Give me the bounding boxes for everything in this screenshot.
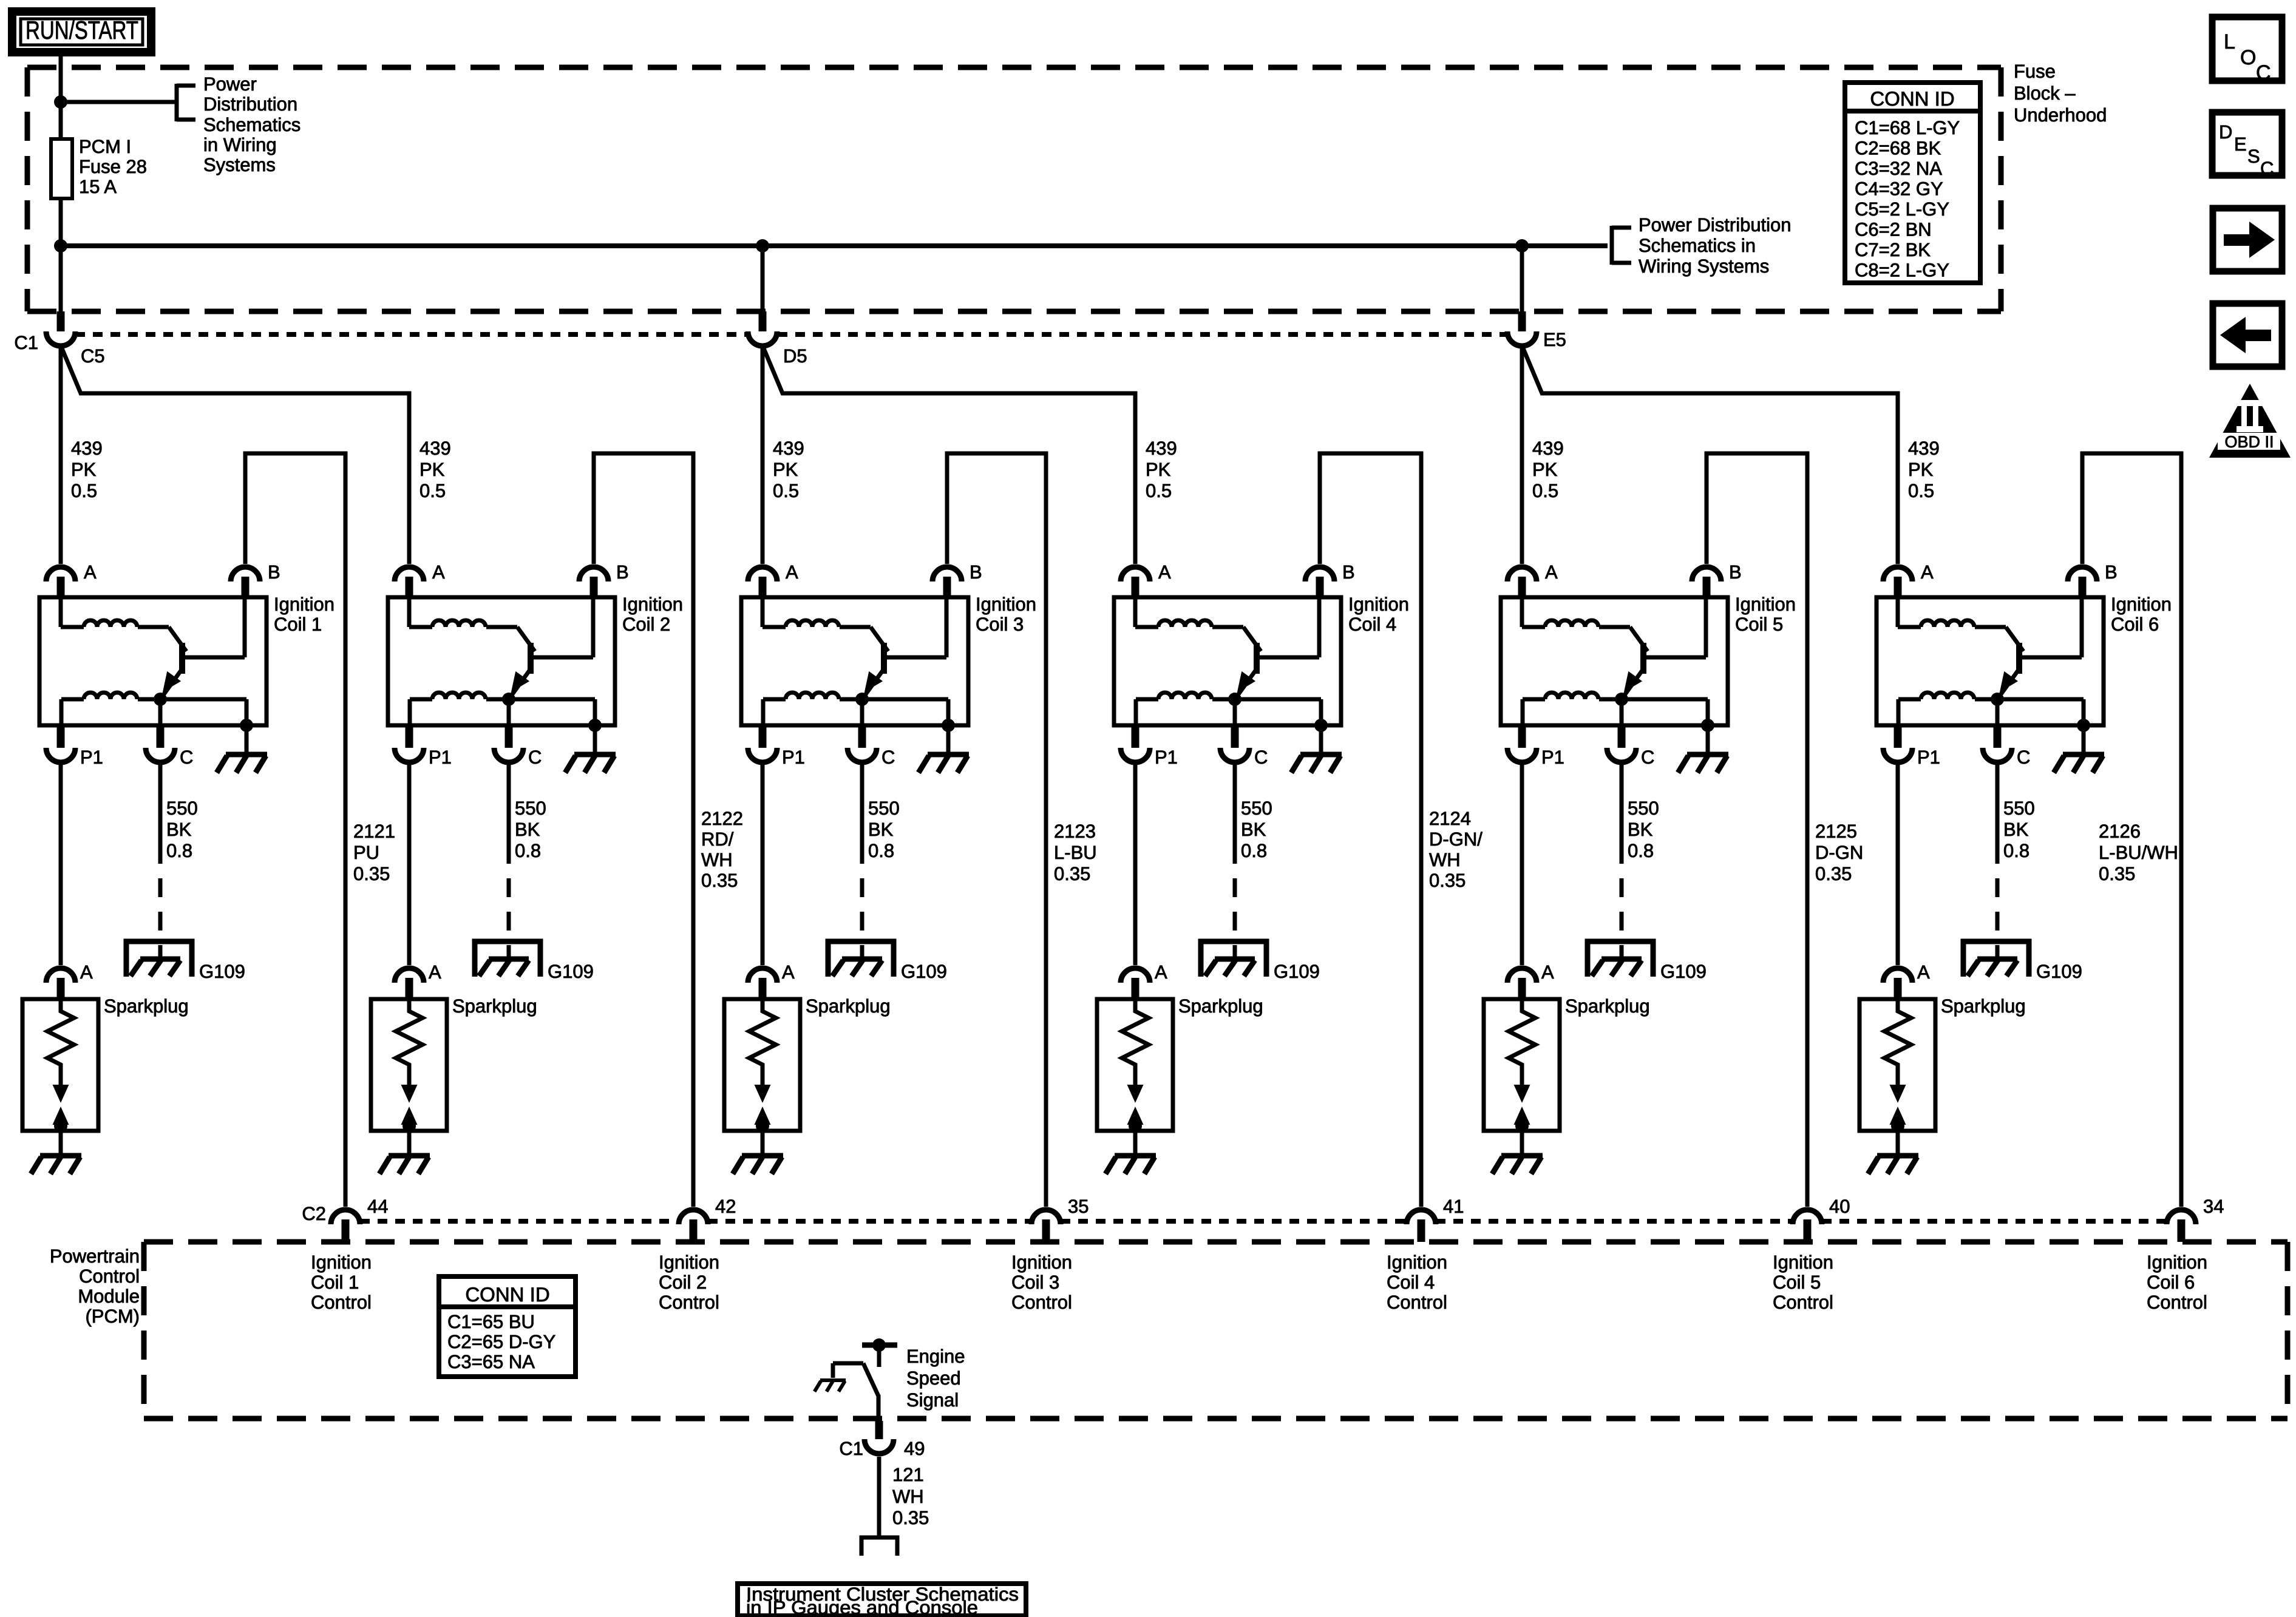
label: Ignition Coil 5 Control — [1773, 1252, 1833, 1313]
svg-text:Coil 3: Coil 3 — [976, 614, 1024, 635]
svg-text:C: C — [1254, 747, 1268, 768]
wire: 550 BK from coil 3 pin C — [860, 765, 864, 864]
label: Ignition Coil 1 — [274, 594, 335, 635]
svg-text:B: B — [1342, 561, 1355, 583]
svg-text:P1: P1 — [1541, 747, 1564, 768]
svg-text:A: A — [786, 561, 798, 583]
svg-text:G109: G109 — [1660, 961, 1707, 982]
label: circuit 2125 — [1815, 821, 1863, 884]
connector: PCM pin 34 — [2167, 1210, 2196, 1242]
label: Powertrain Control Module (PCM) — [50, 1246, 140, 1327]
wire: 550 BK from coil 5 pin C — [1620, 765, 1624, 864]
svg-text:C6=2 BN: C6=2 BN — [1855, 219, 1932, 240]
sparkplug 5 — [1484, 961, 1560, 1133]
svg-text:P1: P1 — [1155, 747, 1178, 768]
node: bus junction at E5 — [1515, 239, 1529, 253]
svg-text:439: 439 — [1146, 438, 1177, 459]
svg-text:2126: 2126 — [2099, 821, 2141, 842]
sparkplug 4 — [1097, 961, 1173, 1133]
svg-text:C: C — [180, 747, 193, 768]
svg-text:Sparkplug: Sparkplug — [1178, 995, 1263, 1017]
svg-text:0.35: 0.35 — [701, 870, 738, 891]
icon: back arrow box — [2213, 303, 2282, 367]
svg-text:Control: Control — [1773, 1292, 1833, 1313]
svg-text:C: C — [2256, 61, 2271, 84]
svg-text:44: 44 — [367, 1196, 388, 1217]
wire: dotted connector interface line (top) — [75, 332, 748, 337]
svg-text:0.35: 0.35 — [1054, 863, 1090, 884]
svg-text:Coil 4: Coil 4 — [1387, 1272, 1435, 1293]
wire: 439 PK feed to coil 3 — [761, 348, 765, 564]
svg-text:BK: BK — [868, 819, 894, 840]
svg-text:D5: D5 — [783, 345, 807, 367]
node: bus junction at C5 — [54, 239, 67, 253]
svg-text:C: C — [528, 747, 542, 768]
svg-text:0.8: 0.8 — [1241, 840, 1267, 861]
svg-text:Control: Control — [659, 1292, 719, 1313]
label: 550 BK 0.8 (coil 2) — [515, 798, 546, 861]
svg-text:BK: BK — [2003, 819, 2029, 840]
label: 550 BK 0.8 (coil 1) — [166, 798, 198, 861]
svg-text:A: A — [1541, 961, 1554, 983]
svg-text:Wiring Systems: Wiring Systems — [1639, 256, 1769, 277]
svg-text:B: B — [268, 561, 280, 583]
svg-text:L-BU/WH: L-BU/WH — [2099, 842, 2178, 863]
bracket: power distribution schematics reference (right) — [1612, 226, 1631, 265]
svg-text:Ignition: Ignition — [622, 594, 683, 615]
fuse PCM I Fuse 28 15 A — [51, 139, 72, 198]
svg-text:Coil 1: Coil 1 — [274, 614, 322, 635]
svg-text:B: B — [2105, 561, 2118, 583]
svg-text:Module: Module — [78, 1286, 140, 1307]
label: Ignition Coil 4 Control — [1387, 1252, 1447, 1313]
svg-text:41: 41 — [1443, 1196, 1464, 1217]
ground (sparkplug 5) — [1492, 1131, 1543, 1174]
wire: ignition coil 2 control to PCM — [594, 453, 693, 1207]
svg-text:550: 550 — [166, 798, 198, 819]
wire: 439 PK feed to coil 5 — [1520, 348, 1524, 564]
svg-text:S: S — [2247, 146, 2260, 167]
svg-text:Control: Control — [1387, 1292, 1447, 1313]
svg-text:G109: G109 — [1274, 961, 1320, 982]
sparkplug 2 — [371, 961, 447, 1133]
svg-text:0.8: 0.8 — [868, 840, 894, 861]
svg-text:C: C — [2017, 747, 2030, 768]
label: Ignition Coil 3 Control — [1011, 1252, 1072, 1313]
svg-text:C1=68 L-GY: C1=68 L-GY — [1855, 117, 1960, 138]
svg-text:Schematics in: Schematics in — [1639, 235, 1756, 256]
wire: dashed splice to G109 (coil 2) — [507, 878, 511, 959]
fuse block CONN ID table — [1845, 83, 1980, 283]
wire: coil 4 P1 to sparkplug — [1133, 765, 1138, 965]
svg-text:Block –: Block – — [2014, 83, 2076, 104]
ground (sparkplug 3) — [733, 1131, 783, 1174]
label: PCM I Fuse 28 15 A — [79, 136, 147, 197]
svg-text:in Wiring: in Wiring — [203, 134, 277, 155]
svg-text:Fuse 28: Fuse 28 — [79, 156, 147, 177]
svg-text:0.35: 0.35 — [353, 863, 390, 884]
label: Ignition Coil 1 Control — [311, 1252, 372, 1313]
svg-text:Control: Control — [2147, 1292, 2207, 1313]
svg-text:40: 40 — [1829, 1196, 1850, 1217]
svg-text:Distribution: Distribution — [203, 93, 297, 115]
wire: coil 5 P1 to sparkplug — [1520, 765, 1524, 965]
svg-text:Ignition: Ignition — [1735, 594, 1796, 615]
wire: dotted connector interface line (PCM) — [360, 1219, 679, 1224]
svg-text:Coil 1: Coil 1 — [311, 1272, 359, 1293]
svg-text:C: C — [881, 747, 895, 768]
svg-text:E5: E5 — [1543, 329, 1566, 350]
svg-text:Powertrain: Powertrain — [50, 1246, 140, 1267]
label: 550 BK 0.8 (coil 4) — [1241, 798, 1272, 861]
label: 439 PK 0.5 (coil 6) — [1908, 438, 1940, 501]
wire: 550 BK from coil 2 pin C — [507, 765, 511, 864]
svg-text:0.35: 0.35 — [892, 1507, 929, 1528]
wire from fuse to bus — [59, 198, 63, 246]
Fuse Block - Underhood label — [2014, 61, 2107, 126]
svg-text:2124: 2124 — [1429, 808, 1471, 829]
svg-text:L-BU: L-BU — [1054, 842, 1097, 863]
ground (coil 5 case) — [1678, 725, 1728, 773]
svg-text:PU: PU — [353, 842, 379, 863]
svg-text:BK: BK — [1241, 819, 1266, 840]
svg-text:C1: C1 — [14, 332, 38, 353]
svg-text:Fuse: Fuse — [2014, 61, 2056, 82]
svg-text:2125: 2125 — [1815, 821, 1857, 842]
svg-text:D-GN: D-GN — [1815, 842, 1863, 863]
svg-text:15 A: 15 A — [79, 176, 117, 197]
svg-text:C2=68 BK: C2=68 BK — [1855, 138, 1941, 159]
connector: PCM pin 40 — [1793, 1210, 1822, 1242]
connector C1 pin 49 — [864, 1421, 894, 1454]
svg-text:0.8: 0.8 — [1628, 840, 1654, 861]
wire: coil 2 P1 to sparkplug — [407, 765, 412, 965]
wire to power distribution bracket — [61, 100, 177, 104]
wire: 439 PK feed to coil 6 — [1523, 348, 1898, 564]
ground G109 (coil 5) — [1588, 941, 1653, 977]
ignition coil 6 — [1877, 561, 2118, 768]
svg-text:BK: BK — [515, 819, 540, 840]
label: Ignition Coil 6 — [2111, 594, 2172, 635]
svg-text:Coil 2: Coil 2 — [622, 614, 670, 635]
svg-text:0.35: 0.35 — [1429, 870, 1466, 891]
svg-text:C: C — [1641, 747, 1654, 768]
svg-text:Schematics: Schematics — [203, 114, 301, 135]
svg-text:C3=32 NA: C3=32 NA — [1855, 158, 1942, 179]
svg-text:439: 439 — [1532, 438, 1564, 459]
svg-text:Coil 4: Coil 4 — [1348, 614, 1396, 635]
svg-text:0.8: 0.8 — [166, 840, 192, 861]
svg-text:A: A — [1917, 961, 1930, 983]
wire: ignition coil 4 control to PCM — [1320, 453, 1421, 1207]
ground G109 (coil 2) — [475, 941, 540, 977]
svg-text:PK: PK — [419, 459, 445, 480]
icon: forward arrow box — [2213, 208, 2282, 271]
sparkplug 1 — [22, 961, 98, 1133]
svg-text:C5=2 L-GY: C5=2 L-GY — [1855, 198, 1949, 220]
wire: coil 1 P1 to sparkplug — [59, 765, 63, 965]
svg-text:D: D — [2219, 121, 2232, 143]
svg-text:E: E — [2234, 134, 2247, 155]
svg-text:Ignition: Ignition — [2111, 594, 2172, 615]
ignition coil 1 — [39, 561, 280, 768]
svg-text:C8=2 L-GY: C8=2 L-GY — [1855, 260, 1949, 281]
svg-text:PK: PK — [1532, 459, 1558, 480]
connector: PCM pin 42 — [679, 1210, 708, 1242]
svg-text:B: B — [616, 561, 629, 583]
ignition coil 4 — [1114, 561, 1355, 768]
svg-text:Sparkplug: Sparkplug — [1941, 995, 2026, 1017]
bracket: power distribution schematics reference — [177, 84, 195, 121]
off-page connector to instrument cluster — [861, 1537, 897, 1556]
Fuse Block - Underhood dashed box — [27, 67, 2001, 311]
connector: PCM pin 35 — [1031, 1210, 1061, 1242]
ground G109 (coil 1) — [126, 941, 192, 977]
svg-text:Control: Control — [1011, 1292, 1072, 1313]
svg-text:Engine: Engine — [906, 1346, 965, 1367]
ground (coil 1 case) — [217, 725, 267, 773]
svg-text:C4=32 GY: C4=32 GY — [1855, 178, 1943, 200]
svg-text:A: A — [80, 961, 93, 983]
svg-text:O: O — [2240, 46, 2256, 69]
svg-text:Coil 5: Coil 5 — [1773, 1272, 1821, 1293]
svg-text:121: 121 — [892, 1464, 924, 1485]
svg-text:G109: G109 — [901, 961, 947, 982]
svg-text:439: 439 — [419, 438, 451, 459]
svg-text:0.5: 0.5 — [1146, 480, 1172, 501]
label: 550 BK 0.8 (coil 3) — [868, 798, 900, 861]
node: junction to power distribution note — [54, 95, 67, 109]
ground (coil 6 case) — [2054, 725, 2104, 773]
svg-text:RD/: RD/ — [701, 829, 734, 850]
PCM CONN ID table — [439, 1276, 576, 1377]
ignition coil 5 — [1501, 561, 1742, 768]
ground G109 (coil 6) — [1963, 941, 2029, 977]
svg-text:439: 439 — [71, 438, 103, 459]
label: 439 PK 0.5 (coil 1) — [71, 438, 103, 501]
svg-text:0.8: 0.8 — [515, 840, 541, 861]
wire: 439 PK feed to coil 2 — [62, 348, 409, 564]
svg-text:34: 34 — [2203, 1196, 2224, 1217]
svg-text:PK: PK — [1146, 459, 1171, 480]
svg-text:A: A — [1155, 961, 1167, 983]
svg-text:Ignition: Ignition — [1011, 1252, 1072, 1273]
svg-text:A: A — [84, 561, 97, 583]
ground (sparkplug 2) — [379, 1131, 430, 1174]
svg-text:Ignition: Ignition — [311, 1252, 372, 1273]
ground (coil 3 case) — [919, 725, 969, 773]
label: circuit 2124 — [1429, 808, 1483, 891]
wire from RUN/START to fuse — [59, 52, 63, 139]
ground G109 (coil 4) — [1201, 941, 1266, 977]
label: circuit 2123 — [1054, 821, 1097, 884]
svg-text:Ignition: Ignition — [976, 594, 1036, 615]
svg-text:0.35: 0.35 — [2099, 863, 2135, 884]
svg-text:0.8: 0.8 — [2003, 840, 2029, 861]
svg-text:C5: C5 — [81, 345, 105, 367]
svg-text:WH: WH — [1429, 849, 1461, 870]
svg-text:42: 42 — [715, 1196, 736, 1217]
svg-text:C1=65 BU: C1=65 BU — [447, 1311, 535, 1332]
svg-text:Ignition: Ignition — [1387, 1252, 1447, 1273]
svg-text:550: 550 — [1628, 798, 1659, 819]
icon: OBD II triangle — [2209, 384, 2291, 458]
ground (coil 4 case) — [1291, 725, 1342, 773]
wire: 439 PK feed to coil 1 — [59, 348, 63, 564]
svg-text:PCM I: PCM I — [79, 136, 131, 157]
svg-text:Ignition: Ignition — [1348, 594, 1409, 615]
svg-text:A: A — [1921, 561, 1934, 583]
svg-text:C2: C2 — [302, 1203, 326, 1224]
svg-text:A: A — [432, 561, 445, 583]
svg-text:A: A — [429, 961, 441, 983]
svg-text:C2=65 D-GY: C2=65 D-GY — [447, 1331, 555, 1352]
svg-text:B: B — [1729, 561, 1742, 583]
svg-text:BK: BK — [166, 819, 192, 840]
svg-text:Ignition: Ignition — [659, 1252, 719, 1273]
svg-text:A: A — [1158, 561, 1171, 583]
label: Ignition Coil 2 — [622, 594, 683, 635]
connector: PCM pin 41 — [1407, 1210, 1436, 1242]
wire: ignition coil 1 control to PCM — [245, 453, 345, 1207]
svg-text:Control: Control — [79, 1266, 140, 1287]
wire: 121 WH to instrument cluster — [877, 1457, 881, 1536]
svg-text:Power: Power — [203, 73, 257, 95]
connector E5 pin — [1507, 246, 1537, 346]
label: Ignition Coil 2 Control — [659, 1252, 719, 1313]
svg-text:P1: P1 — [782, 747, 805, 768]
label: 439 PK 0.5 (coil 3) — [773, 438, 804, 501]
wire: ignition coil 5 control to PCM — [1707, 453, 1807, 1207]
sparkplug 3 — [724, 961, 800, 1133]
svg-text:G109: G109 — [548, 961, 594, 982]
label: Ignition Coil 5 — [1735, 594, 1796, 635]
svg-text:Coil 2: Coil 2 — [659, 1272, 707, 1293]
wire: 550 BK from coil 4 pin C — [1233, 765, 1237, 864]
icon: LOC box — [2212, 17, 2282, 84]
svg-text:0.35: 0.35 — [1815, 863, 1852, 884]
wire: dashed splice to G109 (coil 1) — [158, 878, 163, 959]
svg-text:439: 439 — [1908, 438, 1940, 459]
svg-text:0.5: 0.5 — [419, 480, 446, 501]
svg-text:C: C — [2260, 158, 2274, 179]
svg-text:550: 550 — [2003, 798, 2035, 819]
svg-text:439: 439 — [773, 438, 804, 459]
label: 550 BK 0.8 (coil 6) — [2003, 798, 2035, 861]
svg-text:C1: C1 — [839, 1438, 863, 1459]
wire: dashed splice to G109 (coil 5) — [1620, 878, 1624, 959]
svg-text:B: B — [970, 561, 982, 583]
svg-text:P1: P1 — [1917, 747, 1940, 768]
sparkplug 6 — [1860, 961, 1935, 1133]
label: circuit 2122 — [701, 808, 743, 891]
svg-text:CONN ID: CONN ID — [465, 1283, 549, 1306]
label: circuit 2121 — [353, 821, 395, 884]
RUN/START power source box — [12, 12, 151, 52]
svg-text:P1: P1 — [80, 747, 103, 768]
svg-text:Ignition: Ignition — [1773, 1252, 1833, 1273]
wire: 550 BK from coil 6 pin C — [1995, 765, 2000, 864]
svg-text:0.5: 0.5 — [773, 480, 799, 501]
label: Ignition Coil 3 — [976, 594, 1036, 635]
svg-text:WH: WH — [701, 849, 733, 870]
svg-text:550: 550 — [1241, 798, 1272, 819]
label: Engine Speed Signal — [906, 1346, 965, 1411]
svg-text:P1: P1 — [429, 747, 452, 768]
svg-text:WH: WH — [892, 1486, 924, 1507]
svg-text:OBD II: OBD II — [2224, 433, 2274, 451]
svg-text:2123: 2123 — [1054, 821, 1096, 842]
connector D5 pin — [748, 246, 777, 346]
wire: coil 6 P1 to sparkplug — [1896, 765, 1900, 965]
svg-text:G109: G109 — [199, 961, 245, 982]
connector: PCM pin 44 — [331, 1210, 360, 1242]
svg-text:Ignition: Ignition — [2147, 1252, 2207, 1273]
svg-text:Coil 6: Coil 6 — [2111, 614, 2159, 635]
svg-text:Sparkplug: Sparkplug — [1565, 995, 1650, 1017]
ground (sparkplug 4) — [1106, 1131, 1156, 1174]
svg-text:2121: 2121 — [353, 821, 395, 842]
Powertrain Control Module dashed box — [144, 1242, 2288, 1419]
svg-text:0.5: 0.5 — [71, 480, 97, 501]
wire: 550 BK from coil 1 pin C — [158, 765, 163, 864]
ignition coil 2 — [388, 561, 629, 768]
label: Ignition Coil 6 Control — [2147, 1252, 2207, 1313]
ground (sparkplug 6) — [1868, 1131, 1918, 1174]
svg-text:G109: G109 — [2036, 961, 2082, 982]
label: Ignition Coil 4 — [1348, 594, 1409, 635]
svg-text:Ignition: Ignition — [274, 594, 335, 615]
wire: 439 PK feed to coil 4 — [764, 348, 1135, 564]
svg-text:C7=2 BK: C7=2 BK — [1855, 239, 1931, 260]
label: Power Distribution Schematics in Wiring Systems (top) — [203, 73, 301, 175]
svg-text:Sparkplug: Sparkplug — [806, 995, 891, 1017]
svg-text:RUN/START: RUN/START — [25, 16, 138, 44]
connector C5 pin — [46, 246, 75, 346]
wire: dashed splice to G109 (coil 6) — [1995, 878, 2000, 959]
svg-text:PK: PK — [71, 459, 97, 480]
svg-text:Underhood: Underhood — [2014, 104, 2107, 126]
svg-text:Control: Control — [311, 1292, 372, 1313]
label: 550 BK 0.8 (coil 5) — [1628, 798, 1659, 861]
node: bus junction at D5 — [756, 239, 769, 253]
svg-text:Systems: Systems — [203, 154, 276, 175]
ground G109 (coil 3) — [828, 941, 894, 977]
svg-text:CONN ID: CONN ID — [1870, 87, 1954, 110]
svg-text:A: A — [1545, 561, 1558, 583]
svg-text:PK: PK — [773, 459, 798, 480]
label: 439 PK 0.5 (coil 2) — [419, 438, 451, 501]
wire: dashed splice to G109 (coil 3) — [860, 878, 864, 959]
ground (coil 2 case) — [565, 725, 616, 773]
svg-text:PK: PK — [1908, 459, 1934, 480]
svg-text:0.5: 0.5 — [1532, 480, 1558, 501]
svg-text:550: 550 — [515, 798, 546, 819]
wire: coil 3 P1 to sparkplug — [761, 765, 765, 965]
wire: ignition coil 3 control to PCM — [947, 453, 1046, 1207]
svg-text:Signal: Signal — [906, 1389, 959, 1411]
svg-text:35: 35 — [1068, 1196, 1089, 1217]
svg-text:Sparkplug: Sparkplug — [452, 995, 537, 1017]
ignition coil 3 — [741, 561, 982, 768]
ground (sparkplug 1) — [31, 1131, 81, 1174]
label: 439 PK 0.5 (coil 5) — [1532, 438, 1564, 501]
svg-text:Speed: Speed — [906, 1368, 961, 1389]
svg-text:Coil 5: Coil 5 — [1735, 614, 1783, 635]
label: circuit 2126 — [2099, 821, 2178, 884]
label: 439 PK 0.5 (coil 4) — [1146, 438, 1177, 501]
wire: dashed splice to G109 (coil 4) — [1233, 878, 1237, 959]
